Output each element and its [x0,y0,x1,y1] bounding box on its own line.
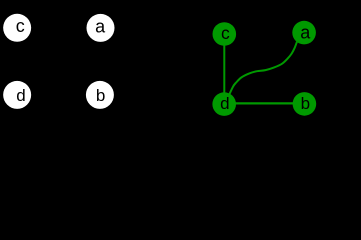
node a (left graph) [87,14,115,42]
svg-text:b: b [301,94,310,113]
wire: edge d-a curved (right graph) [229,42,298,97]
node b (right graph) [293,92,317,116]
node c (right graph) [213,22,237,46]
node d (right graph) [212,92,236,116]
svg-text:c: c [16,16,25,36]
wire: edge c-d (right graph) [223,34,225,104]
svg-text:a: a [95,16,106,36]
node d (left graph) [3,81,31,109]
node a (right graph) [292,21,316,45]
svg-text:b: b [96,86,105,105]
node b (left graph) [86,81,114,109]
node c (left graph) [3,14,31,42]
svg-text:c: c [221,23,230,43]
svg-text:d: d [16,86,25,105]
svg-text:a: a [300,22,311,42]
svg-text:d: d [220,94,229,113]
wire: edge d-b (right graph) [224,102,304,104]
